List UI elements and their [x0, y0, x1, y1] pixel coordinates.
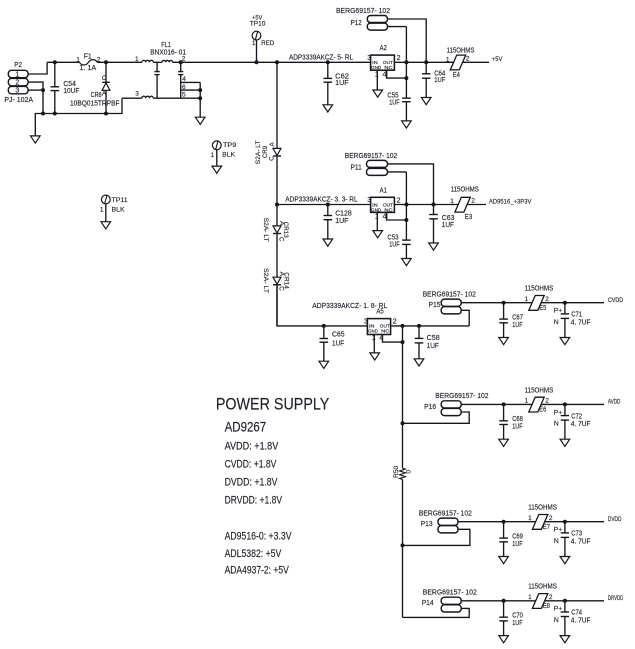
- svg-text:1: 1: [76, 56, 80, 63]
- svg-text:AD9267: AD9267: [225, 420, 267, 435]
- svg-text:115OHMS: 115OHMS: [525, 286, 554, 293]
- svg-text:C74: C74: [571, 610, 582, 617]
- svg-text:ADL5382: +5V: ADL5382: +5V: [225, 548, 282, 560]
- svg-text:5: 5: [182, 92, 186, 99]
- svg-text:BLK: BLK: [222, 152, 235, 159]
- svg-text:BERG69157- 102: BERG69157- 102: [345, 153, 397, 160]
- svg-text:2: 2: [545, 296, 549, 303]
- svg-text:2: 2: [549, 594, 553, 601]
- svg-text:C: C: [278, 237, 285, 242]
- svg-text:AVDD: AVDD: [608, 399, 621, 406]
- svg-text:P16: P16: [424, 404, 436, 411]
- svg-text:CR8: CR8: [91, 92, 102, 99]
- svg-text:P13: P13: [421, 521, 433, 528]
- svg-text:BERG69157- 102: BERG69157- 102: [423, 590, 477, 597]
- svg-text:DRVDD: +1.8V: DRVDD: +1.8V: [225, 495, 283, 507]
- svg-text:P+: P+: [554, 606, 563, 613]
- svg-text:115OHMS: 115OHMS: [447, 47, 475, 54]
- svg-text:2: 2: [545, 398, 549, 405]
- svg-text:S2A- LT: S2A- LT: [255, 140, 262, 164]
- svg-text:2: 2: [15, 80, 19, 87]
- svg-text:1: 1: [525, 296, 529, 303]
- svg-text:BERG69157- 102: BERG69157- 102: [419, 510, 472, 517]
- svg-text:C70: C70: [512, 612, 523, 619]
- svg-text:ADP3339AKCZ- 5- RL: ADP3339AKCZ- 5- RL: [289, 54, 353, 61]
- svg-text:N: N: [554, 421, 559, 428]
- svg-text:1: 1: [528, 515, 532, 522]
- svg-text:10UF: 10UF: [63, 88, 79, 95]
- svg-text:C72: C72: [571, 413, 582, 420]
- svg-text:S2A- LT: S2A- LT: [262, 268, 269, 293]
- svg-text:3: 3: [135, 91, 139, 98]
- svg-text:2: 2: [397, 55, 401, 62]
- svg-text:1: 1: [135, 56, 139, 63]
- svg-text:A: A: [102, 91, 107, 98]
- svg-text:C69: C69: [512, 533, 523, 540]
- svg-text:C71: C71: [571, 312, 582, 319]
- svg-text:AD9516-0: +3.3V: AD9516-0: +3.3V: [225, 530, 293, 542]
- svg-text:GND: GND: [368, 329, 378, 334]
- svg-text:1UF: 1UF: [442, 222, 454, 229]
- svg-text:C: C: [102, 75, 107, 82]
- svg-text:AD9516_+3P3V: AD9516_+3P3V: [489, 199, 532, 206]
- svg-text:PJ- 102A: PJ- 102A: [4, 95, 33, 104]
- svg-text:1UF: 1UF: [427, 343, 439, 350]
- svg-text:DRVDD: DRVDD: [608, 595, 624, 602]
- svg-text:4. 7UF: 4. 7UF: [571, 618, 591, 625]
- svg-text:S2A- LT: S2A- LT: [262, 218, 269, 242]
- svg-text:E5: E5: [539, 305, 546, 312]
- svg-text:CVDD: CVDD: [608, 297, 624, 304]
- svg-text:A5: A5: [376, 309, 383, 316]
- svg-text:TP10: TP10: [250, 20, 266, 27]
- svg-text:1UF: 1UF: [332, 340, 344, 347]
- svg-text:CVDD: +1.8V: CVDD: +1.8V: [225, 459, 278, 471]
- svg-text:4: 4: [383, 71, 387, 78]
- svg-text:NC: NC: [381, 329, 390, 334]
- svg-text:C128: C128: [335, 210, 352, 217]
- svg-text:1UF: 1UF: [512, 620, 522, 627]
- svg-text:AVDD: +1.8V: AVDD: +1.8V: [225, 441, 279, 453]
- svg-text:1: 1: [375, 214, 379, 221]
- svg-text:P+: P+: [554, 308, 563, 315]
- svg-text:2: 2: [393, 319, 397, 326]
- svg-text:C58: C58: [427, 335, 440, 342]
- svg-text:4. 7UF: 4. 7UF: [571, 539, 591, 546]
- svg-text:P12: P12: [351, 20, 362, 27]
- svg-text:1: 1: [446, 56, 450, 63]
- svg-text:DVDD: DVDD: [608, 516, 622, 523]
- svg-text:N: N: [554, 319, 559, 326]
- svg-text:C53: C53: [387, 234, 398, 241]
- svg-text:GND: GND: [371, 207, 381, 212]
- svg-text:10BQ015TRPBF: 10BQ015TRPBF: [70, 100, 120, 107]
- svg-text:NC: NC: [384, 207, 393, 212]
- svg-text:4. 7UF: 4. 7UF: [571, 421, 591, 428]
- svg-text:1UF: 1UF: [512, 424, 522, 431]
- svg-text:6: 6: [182, 84, 186, 91]
- svg-text:115OHMS: 115OHMS: [451, 187, 479, 194]
- svg-text:3: 3: [364, 319, 368, 326]
- svg-text:E8: E8: [543, 603, 550, 610]
- svg-text:GND: GND: [371, 65, 381, 70]
- svg-text:TP9: TP9: [223, 142, 236, 149]
- svg-text:2: 2: [97, 56, 101, 63]
- svg-text:DVDD: +1.8V: DVDD: +1.8V: [225, 477, 279, 489]
- svg-text:P15: P15: [429, 302, 441, 309]
- svg-text:ADP3339AKCZ- 3. 3- RL: ADP3339AKCZ- 3. 3- RL: [285, 196, 357, 203]
- svg-text:E4: E4: [453, 72, 460, 79]
- svg-text:2: 2: [549, 515, 553, 522]
- svg-text:1: 1: [528, 594, 532, 601]
- svg-text:P14: P14: [422, 600, 434, 607]
- svg-text:3: 3: [367, 197, 371, 204]
- svg-text:CR9: CR9: [262, 146, 269, 158]
- svg-text:TP11: TP11: [112, 197, 128, 204]
- svg-text:1: 1: [375, 71, 379, 78]
- svg-text:1UF: 1UF: [335, 80, 348, 87]
- svg-text:4: 4: [383, 214, 387, 221]
- svg-text:+5V: +5V: [492, 56, 503, 63]
- svg-text:3: 3: [15, 88, 19, 95]
- svg-text:RED: RED: [261, 40, 274, 47]
- svg-text:1UF: 1UF: [389, 100, 400, 107]
- svg-text:1: 1: [525, 398, 529, 405]
- svg-text:4. 7UF: 4. 7UF: [571, 320, 591, 327]
- svg-text:P+: P+: [554, 409, 563, 416]
- svg-text:C65: C65: [332, 332, 345, 339]
- svg-text:1UF: 1UF: [335, 218, 348, 225]
- svg-text:P+: P+: [554, 527, 563, 534]
- svg-text:E7: E7: [543, 524, 550, 531]
- svg-text:N: N: [554, 538, 559, 545]
- svg-text:1: 1: [211, 152, 215, 159]
- svg-text:NC: NC: [384, 65, 393, 70]
- svg-text:C73: C73: [571, 531, 582, 538]
- svg-text:P11: P11: [351, 165, 362, 172]
- svg-text:1UF: 1UF: [512, 322, 522, 329]
- svg-text:C: C: [268, 156, 275, 161]
- svg-text:N: N: [554, 617, 559, 624]
- svg-text:FL1: FL1: [161, 42, 171, 49]
- svg-text:1: 1: [15, 72, 19, 79]
- svg-text:ADA4937-2: +5V: ADA4937-2: +5V: [225, 564, 290, 576]
- svg-text:C55: C55: [387, 92, 398, 99]
- svg-text:3: 3: [367, 55, 371, 62]
- svg-text:1: 1: [252, 40, 256, 47]
- svg-text:C67: C67: [512, 314, 523, 321]
- svg-text:2: 2: [397, 197, 401, 204]
- svg-text:1UF: 1UF: [434, 77, 445, 84]
- svg-text:F1: F1: [84, 54, 92, 61]
- svg-text:1UF: 1UF: [389, 242, 400, 249]
- svg-text:BERG69157- 102: BERG69157- 102: [435, 393, 488, 400]
- svg-text:E6: E6: [539, 407, 546, 414]
- svg-text:4: 4: [182, 76, 186, 83]
- svg-text:POWER SUPPLY: POWER SUPPLY: [216, 395, 329, 413]
- svg-text:1: 1: [100, 207, 104, 214]
- svg-text:BERG69157- 102: BERG69157- 102: [336, 8, 390, 15]
- svg-text:1: 1: [450, 198, 454, 205]
- svg-text:2: 2: [466, 56, 470, 63]
- svg-text:C63: C63: [442, 215, 455, 222]
- svg-text:1UF: 1UF: [512, 541, 522, 548]
- svg-text:C: C: [278, 286, 285, 291]
- svg-text:BLK: BLK: [112, 207, 126, 214]
- svg-text:A2: A2: [380, 45, 387, 52]
- svg-text:115OHMS: 115OHMS: [528, 584, 557, 591]
- svg-text:115OHMS: 115OHMS: [528, 505, 557, 512]
- svg-text:R50: R50: [393, 465, 400, 478]
- svg-text:E3: E3: [465, 214, 472, 221]
- svg-text:A1: A1: [380, 187, 387, 194]
- svg-text:C68: C68: [512, 416, 523, 423]
- svg-text:1. 1A: 1. 1A: [79, 65, 96, 72]
- svg-text:115OHMS: 115OHMS: [525, 387, 554, 394]
- svg-text:0: 0: [405, 470, 412, 474]
- svg-text:2: 2: [471, 197, 475, 204]
- svg-text:BERG69157- 102: BERG69157- 102: [423, 291, 476, 298]
- svg-text:P2: P2: [14, 60, 22, 69]
